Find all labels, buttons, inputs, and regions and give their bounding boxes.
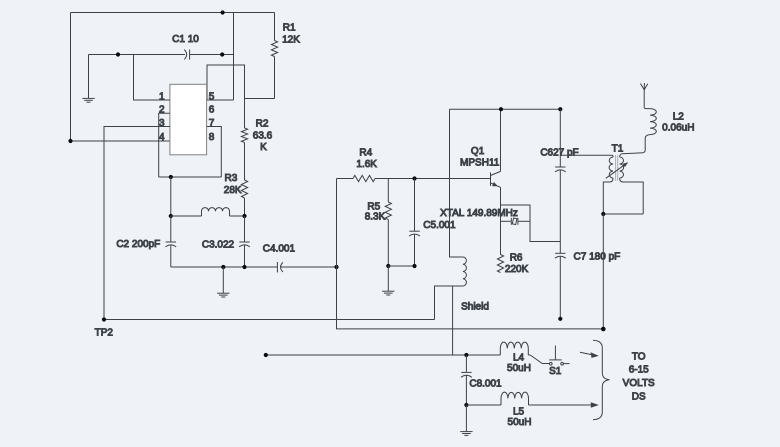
wire emitter branch to C6 chain <box>501 205 561 242</box>
label pin numbers left <box>159 91 165 143</box>
svg-text:R3: R3 <box>225 173 238 184</box>
svg-text:7: 7 <box>209 118 215 129</box>
wire pin1 to C1 <box>134 55 170 101</box>
svg-text:1.6K: 1.6K <box>356 159 377 170</box>
svg-text:0.06uH: 0.06uH <box>662 122 694 133</box>
resistor R4 <box>337 175 491 181</box>
node C1 wire left junction <box>116 52 120 56</box>
wire pin5 up-over to R2 <box>207 65 245 128</box>
wire T1 primary feed <box>560 155 613 157</box>
wire top rail Q1 <box>450 108 561 110</box>
wire R5-C5 link <box>388 265 414 267</box>
resistor R5 <box>385 179 391 267</box>
wire shield bottom left <box>435 286 463 320</box>
capacitor C3 <box>239 216 250 267</box>
node C8 bottom <box>464 403 468 407</box>
svg-text:C5.001: C5.001 <box>423 220 456 231</box>
svg-text:8.3K: 8.3K <box>365 212 386 223</box>
resistor R3 <box>241 180 247 216</box>
node C5 bottom <box>412 264 416 268</box>
label C3 <box>202 239 235 250</box>
capacitor C7 <box>555 253 566 318</box>
label Q1 <box>460 146 500 168</box>
svg-text:Q1: Q1 <box>471 146 485 157</box>
wire T1 return drop <box>602 214 604 329</box>
resistor R2 <box>241 128 247 180</box>
wire shield drop from rail <box>450 109 463 257</box>
label L2 <box>662 112 694 134</box>
svg-text:4: 4 <box>159 132 165 143</box>
ground G4 <box>460 405 472 435</box>
ground G1 <box>82 55 94 103</box>
label L4 <box>507 352 531 374</box>
label C8 <box>469 379 502 390</box>
svg-text:8: 8 <box>209 132 215 143</box>
IC U1 body <box>170 84 207 155</box>
label S1 <box>549 366 562 377</box>
node C7 bottom end <box>558 317 562 321</box>
node T1 secondary bottom <box>601 212 605 216</box>
svg-text:L4: L4 <box>513 352 525 363</box>
svg-text:2: 2 <box>159 105 165 116</box>
label pin numbers right <box>209 91 215 143</box>
label C2 <box>116 239 160 250</box>
svg-text:C8.001: C8.001 <box>469 379 502 390</box>
svg-text:28K: 28K <box>224 185 242 196</box>
svg-text:220K: 220K <box>505 264 529 275</box>
wire tank drop <box>170 177 172 216</box>
inductor L2 <box>622 107 656 153</box>
inductor L1 tank coil <box>171 208 245 216</box>
transistor Q1 <box>491 171 501 187</box>
wire shield to L4 rail <box>452 286 454 355</box>
svg-text:C7 180 pF: C7 180 pF <box>574 252 621 263</box>
wire R1 bottom to R2 top <box>245 98 275 100</box>
svg-text:C4.001: C4.001 <box>263 243 296 254</box>
wire collector up <box>500 109 502 171</box>
resistor R1 <box>271 13 277 99</box>
node R5 bottom <box>386 264 390 268</box>
inductor L5 <box>466 392 528 405</box>
wire L5 to arrow <box>529 402 599 408</box>
node C8 top <box>464 353 468 357</box>
wire left vertical V+ <box>70 13 72 142</box>
label C4 <box>263 243 296 254</box>
label C7 <box>574 252 621 263</box>
label TP2 <box>95 328 114 339</box>
node tank right <box>242 214 246 218</box>
svg-text:K: K <box>260 142 267 153</box>
label R5 <box>365 202 386 223</box>
svg-text:T1: T1 <box>612 144 624 155</box>
capacitor C5 <box>409 179 420 267</box>
svg-text:Shield: Shield <box>461 302 489 313</box>
svg-text:50uH: 50uH <box>507 363 531 374</box>
wire emitter down <box>500 187 502 254</box>
svg-text:12K: 12K <box>282 34 300 45</box>
label supply text <box>623 351 655 402</box>
node TP2 <box>102 317 106 321</box>
svg-text:R2: R2 <box>256 118 269 129</box>
ground G2 <box>217 267 229 297</box>
svg-text:VOLTS: VOLTS <box>623 378 655 389</box>
svg-text:C3.022: C3.022 <box>202 239 235 250</box>
svg-text:DS: DS <box>632 391 646 402</box>
T1 tuning arrow <box>606 162 628 178</box>
ground G3 <box>382 266 394 295</box>
label R1 <box>282 23 300 46</box>
switch S1 <box>530 346 569 366</box>
label C1 value <box>172 34 199 45</box>
svg-text:L2: L2 <box>673 112 685 123</box>
svg-text:1: 1 <box>159 91 165 102</box>
node tank top <box>169 175 173 179</box>
node rail right corner <box>558 107 562 111</box>
node ground branch <box>221 265 225 269</box>
svg-text:6: 6 <box>209 105 215 116</box>
svg-text:TO: TO <box>632 351 646 362</box>
wire top rail <box>71 12 275 14</box>
node C3 bottom <box>242 265 246 269</box>
wire R4 left vertical and bottom rail <box>337 179 604 329</box>
brace supply <box>593 340 610 419</box>
arrow upper supply <box>580 352 599 358</box>
svg-text:MPSH11: MPSH11 <box>460 157 500 168</box>
label C5 <box>423 220 456 231</box>
label R4 <box>356 148 377 171</box>
svg-text:S1: S1 <box>549 366 562 377</box>
wire pin2-pin7 bottom link <box>159 176 222 178</box>
svg-text:63.6: 63.6 <box>253 131 273 142</box>
inductor crystal can coil <box>463 257 467 286</box>
svg-text:C627 pF: C627 pF <box>540 147 578 158</box>
capacitor C6 chain vertical <box>555 109 566 253</box>
inductor L4 <box>500 342 530 355</box>
node tank left <box>169 214 173 218</box>
node L4 rail left end <box>264 353 268 357</box>
svg-text:6-15: 6-15 <box>629 365 649 376</box>
node rail end <box>601 327 606 332</box>
node collector rail <box>499 107 503 111</box>
svg-text:C2 200pF: C2 200pF <box>116 239 160 250</box>
wire pin2 down <box>159 113 170 177</box>
wire pin5 to top rail <box>207 13 234 101</box>
label C6 <box>540 147 578 158</box>
wire pin3 to TP2 <box>104 127 170 320</box>
wire TP2 rail <box>104 319 435 321</box>
capacitor C8 <box>461 355 472 405</box>
antenna <box>640 83 647 107</box>
svg-text:C1 10: C1 10 <box>172 34 199 45</box>
crystal XTAL <box>501 218 531 225</box>
wire pin4 lead <box>71 140 170 142</box>
svg-text:3: 3 <box>159 118 165 129</box>
node top rail junction <box>221 10 225 14</box>
node C1 wire right junction <box>220 52 224 56</box>
wire L4 rail <box>266 354 501 356</box>
svg-text:50uH: 50uH <box>508 417 532 428</box>
capacitor C1 <box>89 50 234 60</box>
wire pin7 down <box>207 127 221 178</box>
node pin4 corner <box>68 139 72 143</box>
node base node <box>412 176 416 180</box>
label R6 <box>505 252 529 275</box>
label L5 <box>508 407 532 428</box>
label T1 <box>612 144 624 155</box>
capacitor C2 <box>165 216 176 267</box>
label R3 <box>224 173 242 196</box>
svg-text:R1: R1 <box>283 23 296 34</box>
label XTAL <box>440 208 518 219</box>
svg-text:R4: R4 <box>359 148 372 159</box>
svg-text:5: 5 <box>209 91 215 102</box>
capacitor C4 <box>277 262 336 273</box>
svg-text:R6: R6 <box>510 252 523 263</box>
wire bottom tank bus <box>171 266 277 268</box>
label Shield <box>461 302 489 313</box>
resistor R6 <box>497 255 503 273</box>
node C4 R4 junction <box>334 265 338 269</box>
svg-text:XTAL 149.89MHz: XTAL 149.89MHz <box>440 208 518 219</box>
svg-text:TP2: TP2 <box>95 328 114 339</box>
transformer T1 <box>603 154 643 214</box>
label R2 <box>253 118 273 153</box>
